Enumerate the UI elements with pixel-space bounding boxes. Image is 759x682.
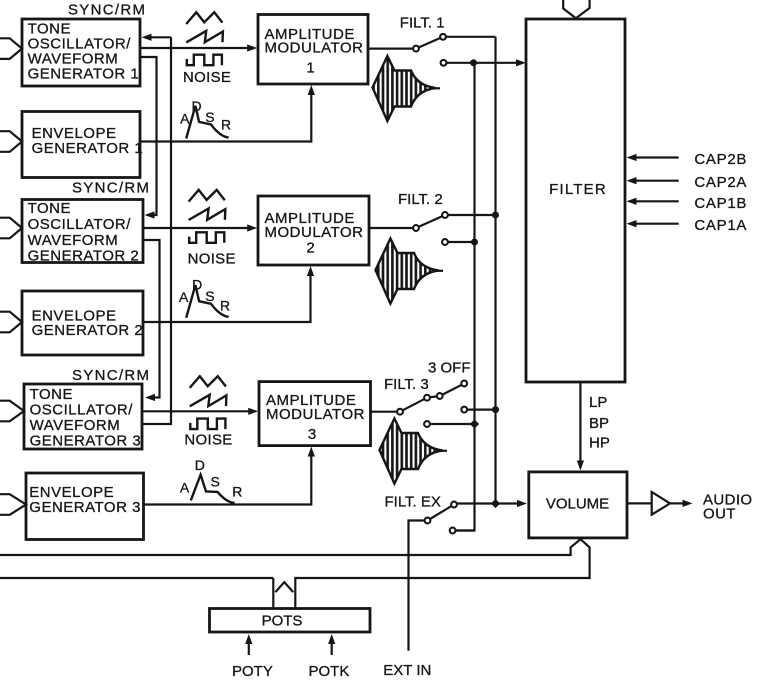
block U1 tone oscillator/waveform generator 1	[22, 19, 140, 86]
wire register bus line 2 into volume chevron	[295, 539, 589, 608]
svg-text:WAVEFORM: WAVEFORM	[28, 232, 119, 249]
svg-text:2: 2	[306, 240, 314, 257]
label CAP1A	[694, 217, 747, 234]
register bus input marker U1	[0, 38, 22, 59]
svg-text:LP: LP	[589, 394, 607, 411]
svg-text:D: D	[192, 98, 202, 114]
svg-text:FILT. 2: FILT. 2	[398, 191, 443, 208]
svg-text:A: A	[179, 289, 189, 305]
label 3 OFF	[428, 360, 471, 377]
label EXT IN	[383, 662, 431, 679]
svg-text:D: D	[195, 457, 205, 473]
wire envelope generator 2 to amplitude modulator 2	[143, 266, 314, 322]
icon sawtooth waveform voice 3	[190, 395, 227, 407]
icon triangle waveform voice 3	[190, 376, 226, 388]
icon pulse waveform voice 3	[190, 419, 225, 430]
icon pulse waveform voice 1	[187, 55, 222, 65]
wire amplitude modulator 1 output to switch FILT.1	[368, 47, 413, 49]
svg-text:3 OFF: 3 OFF	[428, 360, 471, 377]
icon ADSR envelope voice 3 with labels A D S R	[180, 457, 242, 503]
register bus input arrow into filter top	[563, 0, 589, 18]
svg-text:EXT IN: EXT IN	[383, 662, 431, 679]
svg-text:MODULATOR: MODULATOR	[266, 406, 365, 423]
block U10 filter	[526, 19, 625, 382]
register bus input marker U5	[0, 312, 22, 333]
block U2 envelope generator 1	[22, 112, 143, 178]
svg-text:CAP2A: CAP2A	[694, 174, 747, 191]
wire oscillator 2 sync output down to oscillator 3	[143, 240, 160, 401]
switch FILT.EX lever and contacts	[425, 502, 457, 534]
register bus input marker U7	[0, 401, 24, 422]
label LP	[589, 394, 607, 411]
svg-text:HP: HP	[589, 435, 610, 452]
wire register bus line 2 left segment to POTS	[0, 578, 273, 609]
signal burst waveform voice 2	[376, 239, 444, 304]
label FILT. EX	[385, 494, 441, 511]
label POTY	[232, 663, 273, 680]
block U12 pots	[210, 609, 371, 633]
wire direct-to-volume bus (vertical)	[494, 37, 496, 504]
icon sawtooth waveform voice 2	[189, 209, 226, 221]
svg-text:R: R	[232, 484, 242, 500]
svg-text:GENERATOR 1: GENERATOR 1	[32, 140, 144, 157]
label CAP1B	[694, 195, 747, 212]
svg-text:A: A	[180, 111, 190, 127]
svg-text:NOISE: NOISE	[183, 69, 231, 86]
wire FILT.EX bottom contact to filter bus	[456, 529, 475, 531]
icon sawtooth waveform voice 1	[186, 31, 223, 43]
wire register bus line 1 into volume chevron	[0, 539, 581, 555]
switch FILT.1 : wire from bottom contact to filter input	[446, 59, 526, 66]
svg-text:TONE: TONE	[28, 200, 71, 217]
wire envelope generator 3 to amplitude modulator 3	[144, 447, 315, 505]
signal burst waveform voice 3	[380, 419, 448, 484]
register bus input marker U4	[0, 218, 22, 239]
label SYNC/RM voice 2	[72, 180, 150, 197]
wire amplitude modulator 2 output to switch FILT.2	[369, 227, 413, 229]
svg-text:NOISE: NOISE	[184, 431, 232, 448]
bus chevron into POTS	[275, 582, 293, 592]
svg-text:POTK: POTK	[309, 663, 350, 680]
wire CAP1B input	[627, 198, 679, 205]
label NOISE voice 3	[184, 431, 232, 448]
wire CAP2B input	[627, 154, 679, 161]
block U11 volume	[529, 472, 627, 538]
wire filter output LP/BP/HP to volume	[577, 382, 584, 471]
svg-text:FILT. 1: FILT. 1	[400, 14, 445, 31]
label POTK	[309, 663, 350, 680]
switch FILT.1 lever and contacts	[413, 34, 446, 66]
svg-text:BP: BP	[589, 415, 609, 432]
icon ADSR envelope voice 1 with labels A D S R	[180, 98, 231, 139]
wire POTK input arrow	[328, 634, 335, 655]
register bus input marker U8	[0, 494, 26, 515]
label CAP2A	[694, 174, 747, 191]
svg-text:FILTER: FILTER	[549, 181, 607, 198]
svg-text:GENERATOR 3: GENERATOR 3	[29, 499, 141, 516]
svg-text:CAP1A: CAP1A	[694, 217, 747, 234]
wire oscillator 3 output to amplitude modulator 3	[142, 408, 258, 415]
svg-text:FILT. EX: FILT. EX	[385, 494, 441, 511]
label AUDIO OUT	[703, 492, 753, 523]
block U8 envelope generator 3	[26, 473, 144, 540]
label CAP2B	[694, 151, 747, 168]
svg-text:R: R	[220, 298, 230, 314]
svg-text:WAVEFORM: WAVEFORM	[30, 417, 121, 434]
svg-text:FILT. 3: FILT. 3	[384, 376, 429, 393]
label HP	[589, 435, 610, 452]
svg-text:S: S	[205, 288, 214, 304]
svg-text:1: 1	[306, 59, 314, 76]
svg-text:TONE: TONE	[30, 386, 73, 403]
wire POTY input arrow	[245, 634, 252, 655]
svg-text:OSCILLATOR/: OSCILLATOR/	[30, 402, 134, 419]
icon triangle waveform voice 1	[186, 12, 222, 24]
label FILT. 2	[398, 191, 443, 208]
switch FILT.2 : wire from bottom contact to filter bus	[447, 239, 478, 246]
label FILT. 3	[384, 376, 429, 393]
switch FILT.2 : wire from top contact to direct bus	[447, 212, 499, 219]
block U6 amplitude modulator 2	[258, 196, 369, 265]
svg-text:MODULATOR: MODULATOR	[265, 40, 364, 57]
svg-text:GENERATOR 2: GENERATOR 2	[28, 248, 140, 265]
svg-text:OSCILLATOR/: OSCILLATOR/	[28, 216, 132, 233]
wire CAP1A input	[627, 220, 679, 227]
svg-text:GENERATOR 3: GENERATOR 3	[30, 433, 142, 450]
label BP	[589, 415, 609, 432]
amplifier buffer triangle	[627, 492, 670, 515]
svg-text:CAP1B: CAP1B	[694, 195, 747, 212]
svg-text:GENERATOR 2: GENERATOR 2	[32, 322, 144, 339]
svg-text:A: A	[180, 480, 190, 496]
wire oscillator 1 output to amplitude modulator 1	[140, 44, 257, 51]
svg-text:D: D	[192, 277, 202, 293]
wire oscillator 1 sync output down to oscillator 2	[140, 57, 157, 219]
switch FILT.1 : wire from top contact to direct bus	[445, 36, 496, 38]
label SYNC/RM voice 3	[72, 367, 150, 384]
svg-text:3: 3	[308, 426, 316, 443]
svg-text:POTY: POTY	[232, 663, 273, 680]
svg-text:GENERATOR 1: GENERATOR 1	[28, 65, 140, 82]
label SYNC/RM voice 1	[68, 2, 146, 19]
svg-text:SYNC/RM: SYNC/RM	[72, 180, 150, 197]
register bus input marker U2	[0, 131, 22, 152]
icon ADSR envelope voice 2 with labels A D S R	[179, 277, 230, 318]
svg-text:NOISE: NOISE	[188, 250, 236, 267]
svg-text:S: S	[205, 109, 214, 125]
svg-text:R: R	[221, 116, 231, 132]
wire ext in up to FILT.EX common	[409, 521, 425, 651]
icon triangle waveform voice 2	[189, 190, 225, 202]
label NOISE voice 2	[188, 250, 236, 267]
switch FILT.3 : wire from filter contact to filter bus	[430, 419, 479, 428]
wire envelope generator 1 to amplitude modulator 1	[140, 85, 315, 142]
svg-text:S: S	[211, 474, 220, 490]
block U9 amplitude modulator 3	[259, 382, 371, 446]
svg-text:OUT: OUT	[703, 506, 736, 523]
label NOISE voice 1	[183, 69, 231, 86]
switch FILT.3 : wire from direct contact to direct bus	[467, 406, 499, 413]
wire oscillator 2 output to amplitude modulator 2	[143, 224, 257, 231]
signal burst waveform voice 1	[373, 56, 441, 121]
switch FILT.2 lever and contacts	[413, 212, 448, 245]
block U3 amplitude modulator 1	[258, 15, 368, 85]
svg-text:MODULATOR: MODULATOR	[265, 224, 364, 241]
block U4 tone oscillator/waveform generator 2	[22, 200, 143, 265]
icon pulse waveform voice 2	[189, 232, 224, 243]
wire CAP2A input	[627, 177, 679, 184]
wire filter-input bus (vertical)	[456, 63, 475, 531]
wire sync/rm feedback from oscillator 3 into oscillator 1	[142, 34, 172, 424]
wire audio out	[670, 500, 693, 507]
svg-text:VOLUME: VOLUME	[546, 496, 609, 513]
label FILT. 1	[400, 14, 445, 31]
svg-text:CAP2B: CAP2B	[694, 151, 747, 168]
block U7 tone oscillator/waveform generator 3	[24, 384, 142, 450]
svg-text:SYNC/RM: SYNC/RM	[72, 367, 150, 384]
svg-text:SYNC/RM: SYNC/RM	[68, 2, 146, 19]
switch FILT.3 lever and contacts (off position)	[397, 381, 467, 427]
svg-text:POTS: POTS	[262, 613, 303, 630]
block U5 envelope generator 2	[22, 291, 143, 355]
wire amplitude modulator 3 output to switch FILT.3	[371, 411, 398, 413]
wire FILT.EX top contact to volume input (with direct bus junction)	[456, 499, 527, 508]
